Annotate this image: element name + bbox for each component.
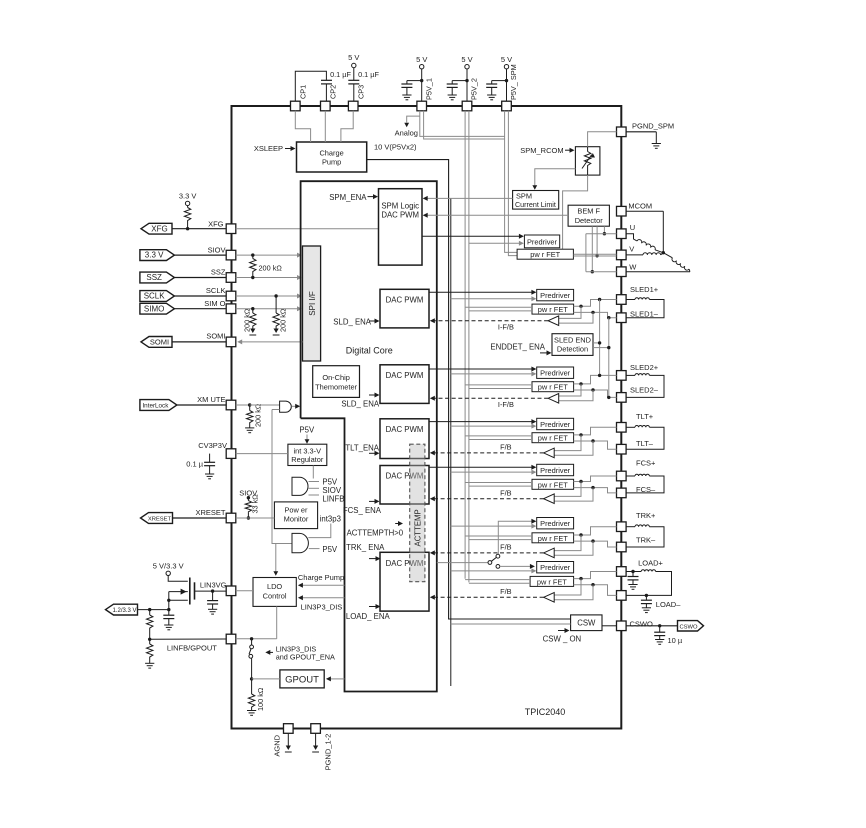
wire gate to LIN3VG <box>195 589 227 592</box>
inductor load TLT <box>626 426 664 450</box>
wire LDO bottom to LINFB <box>276 606 278 638</box>
svg-text:int3p3: int3p3 <box>320 514 341 523</box>
svg-text:LDO: LDO <box>267 582 282 591</box>
SIOV pullup 33k on XRESET <box>239 488 259 519</box>
svg-text:SCLK: SCLK <box>144 292 166 301</box>
block pwr FET LOAD <box>530 576 574 586</box>
wire CP1 to charge pump <box>295 111 310 142</box>
ACTTEMP dashed block <box>410 444 425 582</box>
5V supply terminal P5V_ SPM <box>501 55 512 101</box>
svg-text:10 V(P5Vx2): 10 V(P5Vx2) <box>374 142 417 151</box>
svg-text:Detection: Detection <box>557 345 588 354</box>
svg-text:33 kΩ: 33 kΩ <box>251 494 260 514</box>
svg-text:SLED2+: SLED2+ <box>630 363 659 372</box>
pin TRK- <box>617 542 627 552</box>
svg-text:SPM Logic: SPM Logic <box>381 201 419 210</box>
wire RCOM to SPM current limit <box>532 169 575 190</box>
svg-text:pw r FET: pw r FET <box>537 577 567 586</box>
wire pwr FET TRK to TRK- pin <box>574 541 617 547</box>
pin U <box>617 229 627 239</box>
svg-text:SIM O: SIM O <box>204 299 225 308</box>
svg-text:SPI I/F: SPI I/F <box>308 291 317 316</box>
svg-text:LOAD_ ENA: LOAD_ ENA <box>346 612 391 621</box>
svg-text:P5V_1: P5V_1 <box>424 78 433 100</box>
svg-text:int 3.3-V: int 3.3-V <box>294 446 322 455</box>
block DAC3 DAC PWM <box>380 365 429 404</box>
svg-text:U: U <box>630 223 635 232</box>
svg-text:V: V <box>629 245 634 254</box>
signal LOAD_ENA <box>346 604 391 621</box>
pin P5V_1 <box>417 78 434 111</box>
svg-text:ACTTEMP: ACTTEMP <box>414 509 423 546</box>
pin XMUTE <box>226 400 236 410</box>
Analog tap arrow <box>395 116 420 138</box>
svg-text:Charge Pump: Charge Pump <box>298 573 344 582</box>
connector XRESET <box>141 513 227 524</box>
svg-text:200 kΩ: 200 kΩ <box>254 403 263 427</box>
pin FCS+ <box>617 471 627 481</box>
feedback amp TLT <box>544 433 595 458</box>
svg-text:Control: Control <box>263 591 287 600</box>
block pwr FET SLED1 <box>532 304 574 314</box>
svg-text:5 V: 5 V <box>416 55 427 64</box>
svg-text:Predriver: Predriver <box>540 563 571 572</box>
svg-text:F/B: F/B <box>500 443 512 452</box>
XMUTE pulldown 200k <box>236 403 263 433</box>
AND gate XMUTE <box>250 401 301 412</box>
connector SOMI <box>141 337 226 348</box>
capacitor 0.1uF between CP1 and CP2 <box>295 70 351 101</box>
block Predriver SPM <box>524 235 559 248</box>
pin CP2 <box>321 85 338 111</box>
block Power Monitor <box>274 502 317 529</box>
block int 3.3-V Regulator <box>288 444 327 465</box>
svg-text:SLED2–: SLED2– <box>630 386 659 395</box>
svg-text:LOAD+: LOAD+ <box>638 558 663 567</box>
pin SIMO <box>226 304 236 314</box>
svg-text:5 V/3.3 V: 5 V/3.3 V <box>153 562 184 571</box>
pin CP3 <box>348 85 365 111</box>
svg-text:SSZ: SSZ <box>211 268 226 277</box>
capacitor on 1.2/3.3V rail <box>163 610 174 630</box>
wire DAC to predriver TLT <box>429 419 536 424</box>
motor winding U <box>626 234 663 253</box>
connector InterLock <box>140 400 226 411</box>
svg-text:SPM_ENA: SPM_ENA <box>329 193 367 202</box>
wire SIMO to SPI <box>236 306 302 311</box>
inductor load SLED2 <box>626 374 664 398</box>
block pwr FET SPM <box>517 249 573 259</box>
svg-text:SLD_ ENA: SLD_ ENA <box>341 400 380 409</box>
dashed feedback wire SLED2 <box>430 396 548 401</box>
wire to LDO top <box>273 544 278 576</box>
5V supply terminal above CP3 <box>348 53 359 80</box>
svg-text:TRK_ ENA: TRK_ ENA <box>346 543 385 552</box>
capacitor on LIN3VG <box>207 591 218 614</box>
switch LIN3P3_DIS/GPOUT_ENA <box>249 639 254 681</box>
wire pwr FET LOAD to LOAD- pin <box>574 585 617 596</box>
resistor 200k pulldown on SIMO <box>243 307 257 335</box>
wire pwr FET SLED1 to SLED1+ pin <box>574 300 617 307</box>
svg-text:CP3: CP3 <box>356 85 365 99</box>
svg-text:LOAD–: LOAD– <box>656 600 681 609</box>
dashed feedback wire TLT <box>430 450 544 455</box>
pin LOAD+ <box>617 567 627 577</box>
wire XFG to SPM logic <box>236 228 379 230</box>
svg-text:I-F/B: I-F/B <box>498 400 514 409</box>
wire P5V2 to predriver SPM <box>469 241 524 246</box>
block U-SPMLOGIC SPM Logic DAC PWM <box>379 189 423 265</box>
switch label arrow <box>265 645 335 662</box>
signal SLD_ENA (1) <box>333 318 379 327</box>
pin TLT- <box>617 444 627 454</box>
digital core outline <box>301 181 437 691</box>
feedback amp SLED1 <box>548 305 595 326</box>
dashed feedback wire TRK <box>430 550 544 555</box>
capacitor 0.1u on CV3P3V <box>186 454 215 479</box>
block pwr FET FCS <box>532 479 574 489</box>
pin CSWO <box>617 621 627 631</box>
dashed feedback wire LOAD <box>430 595 544 600</box>
wire gray input predriver LOAD <box>451 568 537 573</box>
svg-text:TLT–: TLT– <box>636 439 654 448</box>
svg-text:Monitor: Monitor <box>284 515 309 524</box>
svg-text:DAC PWM: DAC PWM <box>386 371 424 380</box>
svg-text:MCOM: MCOM <box>628 202 652 211</box>
pin LINFB/GPOUT <box>226 634 236 644</box>
wire P5V pair to pwr FET LOAD <box>465 580 530 584</box>
signal ACTTEMPTH>0 <box>347 521 404 537</box>
PGND_SPM ground <box>626 132 661 149</box>
svg-text:SLED1+: SLED1+ <box>630 285 659 294</box>
capacitor on LOAD- with label <box>641 594 681 613</box>
svg-text:XRESET: XRESET <box>148 517 172 523</box>
wire CSW to CSWO pin <box>602 625 617 627</box>
svg-text:DAC PWM: DAC PWM <box>386 425 424 434</box>
wire pwr FET FCS to FCS- pin <box>574 488 617 493</box>
wire pwr FET LOAD to LOAD+ pin <box>574 572 617 579</box>
svg-text:Charge: Charge <box>319 149 343 158</box>
pin SSZ <box>226 273 236 283</box>
svg-text:P5V_ SPM: P5V_ SPM <box>509 64 518 100</box>
svg-text:F/B: F/B <box>500 543 512 552</box>
svg-text:Pow er: Pow er <box>284 505 308 514</box>
wire BEMF stub W <box>591 226 594 273</box>
wire P5V pair to pwr FET SLED2 <box>465 385 532 389</box>
svg-text:Predriver: Predriver <box>540 519 571 528</box>
svg-text:5 V: 5 V <box>348 53 359 62</box>
wire pwr FET TRK to TRK+ pin <box>574 527 617 535</box>
motor winding V <box>626 253 663 255</box>
inductor load LOAD <box>626 570 671 596</box>
resistor 200k SIOV-SSZ <box>250 253 283 279</box>
wire BEMF stub V <box>595 226 598 257</box>
svg-text:pw r FET: pw r FET <box>538 383 568 392</box>
svg-text:0.1 µF: 0.1 µF <box>358 70 379 79</box>
svg-text:Current Limit: Current Limit <box>515 201 556 209</box>
svg-text:TPIC2040: TPIC2040 <box>525 707 566 717</box>
svg-text:10 µ: 10 µ <box>668 636 683 645</box>
external pass MOSFET <box>167 576 194 610</box>
block Predriver TLT <box>537 418 574 429</box>
wire CV3P3V to regulator <box>236 453 288 455</box>
svg-text:ACTTEMPTH>0: ACTTEMPTH>0 <box>347 528 404 537</box>
svg-text:PGND_1-2: PGND_1-2 <box>324 734 333 771</box>
svg-text:200 kΩ: 200 kΩ <box>243 308 252 332</box>
feedback divider R2 <box>145 639 154 668</box>
svg-text:P5V: P5V <box>299 426 315 435</box>
pin P5V_ SPM <box>502 64 519 111</box>
pin SCLK <box>226 291 236 301</box>
pin SIOV <box>226 250 236 260</box>
svg-text:SCLK: SCLK <box>206 286 226 295</box>
pin TRK+ <box>617 522 627 532</box>
svg-text:Predriver: Predriver <box>540 420 571 429</box>
svg-text:F/B: F/B <box>500 587 512 596</box>
feedback amp FCS <box>544 480 595 504</box>
svg-text:TRK–: TRK– <box>636 536 656 545</box>
wire pwr FET SLED1 to SLED1- pin <box>574 312 617 317</box>
svg-text:200 kΩ: 200 kΩ <box>259 264 283 273</box>
capacitor 0.1uF on CP3 <box>348 70 379 101</box>
svg-text:CP1: CP1 <box>299 85 308 99</box>
svg-text:W: W <box>629 263 637 272</box>
wire gray input predriver SLED2 <box>451 371 537 376</box>
wire bus to CSW second <box>451 623 571 625</box>
AND gate P5V <box>292 524 338 554</box>
svg-text:AGND: AGND <box>273 734 282 756</box>
svg-text:100 kΩ: 100 kΩ <box>256 687 265 711</box>
wire CSWO output <box>626 624 677 627</box>
pin LIN3VG <box>226 586 236 596</box>
decoupling capacitor at P5V_1 <box>401 79 423 100</box>
dashed feedback wire FCS <box>430 496 544 501</box>
wire SIOV to SPI <box>236 253 302 258</box>
svg-text:LIN3P3_DIS: LIN3P3_DIS <box>301 603 343 612</box>
resistor 200k pulldown on SCLK <box>273 294 288 335</box>
block pwr FET TLT <box>532 433 574 443</box>
feedback amp SLED2 <box>548 382 595 403</box>
svg-text:TRK+: TRK+ <box>636 511 656 520</box>
connector SCLK <box>140 291 226 302</box>
inductor load SLED1 <box>626 298 664 318</box>
pin CV3P3V <box>226 449 236 459</box>
signal SPM_RCOM <box>520 146 574 155</box>
svg-text:XRESET: XRESET <box>195 508 225 517</box>
wire P5V_2 rail pair <box>465 111 469 583</box>
svg-text:TLT+: TLT+ <box>636 412 654 421</box>
block Predriver SLED2 <box>537 367 574 378</box>
wire gray input predriver FCS <box>451 470 537 475</box>
svg-text:pw r FET: pw r FET <box>530 250 560 259</box>
svg-text:XFG: XFG <box>151 224 167 233</box>
wire SSZ to SPI <box>236 275 302 280</box>
svg-text:SLD_ ENA: SLD_ ENA <box>333 318 372 327</box>
wire PGND_SPM to RCOM <box>588 132 617 147</box>
svg-text:5 V: 5 V <box>461 55 472 64</box>
pin AGND <box>273 724 294 757</box>
capacitor 10u on CSWO <box>654 626 683 645</box>
regulator output gate <box>292 466 319 496</box>
wire XRESET to power monitor <box>236 517 275 519</box>
inductor load FCS <box>626 474 664 493</box>
wire RCOM to pwr FET <box>563 175 588 249</box>
connector SIMO <box>140 303 226 314</box>
svg-text:LINFB/GPOUT: LINFB/GPOUT <box>167 643 217 652</box>
block BEMF Detector <box>568 205 609 226</box>
wire gray input predriver SLED1 <box>451 296 537 301</box>
block Predriver LOAD <box>537 562 574 573</box>
svg-text:Predriver: Predriver <box>540 369 571 378</box>
wire pwr FET to U and W <box>586 234 617 272</box>
wire switch to GPOUT <box>252 678 280 680</box>
pin SLED1+ <box>617 295 627 305</box>
svg-text:Digital Core: Digital Core <box>346 346 393 356</box>
labels P5V SIOV LINFB <box>322 478 344 504</box>
decoupling capacitor at P5V_2 <box>447 79 469 100</box>
signal SLD_ENA (2) <box>341 393 380 409</box>
svg-text:XFG: XFG <box>208 220 224 229</box>
svg-text:Pump: Pump <box>322 158 341 167</box>
signal XSLEEP <box>254 144 296 153</box>
wire P5V pair to pwr FET TRK <box>465 536 532 540</box>
wire LIN3VG pin to LDO <box>236 590 253 592</box>
svg-text:SOMI: SOMI <box>150 338 169 347</box>
wire DAC to predriver SLED1 <box>429 290 536 295</box>
wire GPOUT input <box>326 676 345 681</box>
svg-text:I-F/B: I-F/B <box>498 322 514 331</box>
1.2/3.3V rail <box>138 608 171 611</box>
svg-text:Detector: Detector <box>575 216 603 225</box>
wire SPM current limit to SPM logic <box>423 196 513 201</box>
pin W <box>617 267 627 277</box>
svg-text:FCS_ ENA: FCS_ ENA <box>343 506 382 515</box>
svg-text:Predriver: Predriver <box>527 237 558 246</box>
connector CSWO out <box>678 621 704 631</box>
pin CP1 <box>291 85 308 111</box>
svg-text:XM UTE: XM UTE <box>197 395 225 404</box>
signal ENDDET_ENA <box>490 342 551 355</box>
pin SOMI <box>226 337 236 347</box>
block pwr FET SLED2 <box>532 382 574 392</box>
svg-text:0.1 µ: 0.1 µ <box>186 459 204 468</box>
bus vertical 450 <box>450 198 452 686</box>
wire pwr FET FCS to FCS+ pin <box>574 476 617 482</box>
svg-text:Themometer: Themometer <box>315 383 357 392</box>
svg-text:SPM: SPM <box>516 191 532 200</box>
label P5V above regulator <box>299 426 315 444</box>
pin LOAD- <box>617 591 627 601</box>
decoupling capacitor at P5V_ SPM <box>486 79 508 100</box>
block DAC6 DAC PWM <box>380 552 429 611</box>
pin XRESET <box>226 513 236 523</box>
svg-text:CP2: CP2 <box>329 85 338 99</box>
svg-text:CSW: CSW <box>577 619 596 628</box>
svg-text:and GPOUT_ENA: and GPOUT_ENA <box>276 652 335 661</box>
svg-text:pw r FET: pw r FET <box>538 480 568 489</box>
wire divider tap to LINFB pin <box>150 638 227 640</box>
svg-text:Regulator: Regulator <box>291 455 324 464</box>
wire LIN3P3_DIS to LDO <box>298 595 345 611</box>
wire charge pump 10V output <box>367 160 571 619</box>
svg-text:5 V: 5 V <box>501 55 512 64</box>
svg-text:F/B: F/B <box>500 489 512 498</box>
pin V <box>617 250 627 260</box>
svg-text:Predriver: Predriver <box>540 466 571 475</box>
svg-text:ENDDET_ ENA: ENDDET_ ENA <box>490 342 545 351</box>
pin PGND_1-2 <box>311 724 333 771</box>
svg-text:200 kΩ: 200 kΩ <box>279 308 288 332</box>
5V/3.3V supply <box>153 562 184 576</box>
block pwr FET TRK <box>532 533 574 543</box>
signal FCS_ENA <box>343 499 382 515</box>
svg-text:CSWO: CSWO <box>679 624 698 630</box>
wire DAC to predriver SLED2 <box>429 367 536 372</box>
svg-text:CSWO: CSWO <box>630 619 653 628</box>
5V supply terminal P5V_1 <box>416 55 427 101</box>
svg-text:LIN3VG: LIN3VG <box>200 580 227 589</box>
wire BEMF to SPM logic <box>423 213 568 218</box>
signal SPM_ENA <box>329 193 378 202</box>
wire P5V_1 rail pair <box>420 111 505 139</box>
svg-text:PGND_SPM: PGND_SPM <box>632 121 674 130</box>
svg-text:SLED END: SLED END <box>554 335 591 344</box>
motor winding W <box>626 253 690 272</box>
pin P5V_2 <box>462 78 479 111</box>
svg-text:pw r FET: pw r FET <box>538 534 568 543</box>
svg-text:1.2/3.3 V: 1.2/3.3 V <box>112 608 136 614</box>
wire pwr FET TLT to TLT- pin <box>574 441 617 449</box>
resistor 100k <box>247 679 265 715</box>
connector 3.3V (SIOV) <box>140 250 226 261</box>
wire SPM logic to predriver <box>422 234 524 239</box>
svg-text:P5V_2: P5V_2 <box>470 78 479 100</box>
feedback divider R1 <box>147 610 153 641</box>
block DAC5 DAC PWM <box>380 466 429 505</box>
pin SLED2- <box>617 393 627 403</box>
wire pwr FET SLED2 to SLED2+ pin <box>574 375 617 384</box>
wire LINFB internal <box>236 637 277 640</box>
block LDO Control <box>253 578 296 607</box>
5V supply terminal P5V_2 <box>461 55 472 101</box>
svg-text:InterLock: InterLock <box>142 403 169 410</box>
svg-text:DAC PWM: DAC PWM <box>386 295 424 304</box>
block SLED END Detection <box>552 334 593 356</box>
wire charge pump to LDO <box>298 573 345 588</box>
wire gray input predriver TRK <box>451 524 537 529</box>
block GPOUT <box>280 670 324 688</box>
wire P5V_SPM rail pair <box>505 111 517 256</box>
connector SSZ <box>140 272 226 283</box>
block DAC2 DAC PWM <box>380 289 429 328</box>
pin SLED2+ <box>617 371 627 381</box>
svg-text:BEM F: BEM F <box>577 207 600 216</box>
capacitor on LOAD+ <box>628 570 639 590</box>
SPI I/F block <box>303 246 321 361</box>
block Charge Pump <box>297 142 367 172</box>
wire pwr FET TLT to TLT+ pin <box>574 427 617 435</box>
connector 1.2/3.3V <box>106 604 138 615</box>
svg-text:pw r FET: pw r FET <box>538 305 568 314</box>
svg-text:SOMI: SOMI <box>206 332 225 341</box>
signal TLT_ENA <box>345 444 379 456</box>
svg-text:0.1 µF: 0.1 µF <box>330 70 351 79</box>
SPM_RCOM resistor block <box>575 147 600 175</box>
wire CP2 to charge pump <box>324 111 326 142</box>
wire sense SLED plus <box>593 298 601 377</box>
wire DAC to predriver FCS <box>429 465 536 470</box>
block SPM Current Limit <box>513 191 559 210</box>
